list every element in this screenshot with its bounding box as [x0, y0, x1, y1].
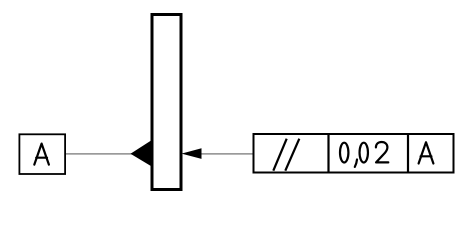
- cell divider 1: [327, 134, 329, 173]
- tolerance value 0,02: [340, 142, 388, 167]
- datum leader line: [66, 153, 133, 155]
- leader arrowhead: [182, 148, 202, 159]
- part surface (vertical rectangle): [152, 15, 181, 190]
- digit 0: [340, 143, 348, 163]
- digit 0: [360, 143, 368, 163]
- comma: [355, 160, 357, 167]
- datum reference A: [419, 142, 434, 163]
- cell divider 2: [407, 134, 409, 173]
- datum triangle (filled): [131, 140, 152, 166]
- leader line to feature control frame: [200, 153, 254, 155]
- digit 2: [376, 142, 388, 162]
- datum label A: [34, 144, 49, 165]
- parallelism symbol: [273, 139, 299, 171]
- feature control frame outer box: [254, 134, 454, 173]
- datum feature symbol box: [19, 134, 65, 174]
